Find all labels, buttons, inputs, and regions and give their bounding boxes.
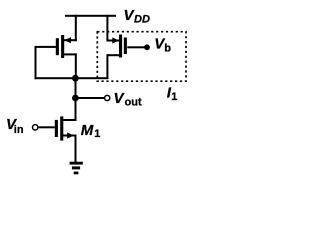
svg-text:1: 1 — [171, 91, 177, 103]
svg-text:b: b — [164, 43, 171, 55]
svg-text:out: out — [125, 97, 142, 109]
svg-text:DD: DD — [134, 13, 150, 25]
svg-text:in: in — [14, 124, 24, 136]
svg-text:1: 1 — [94, 128, 100, 140]
svg-text:M: M — [81, 122, 94, 139]
